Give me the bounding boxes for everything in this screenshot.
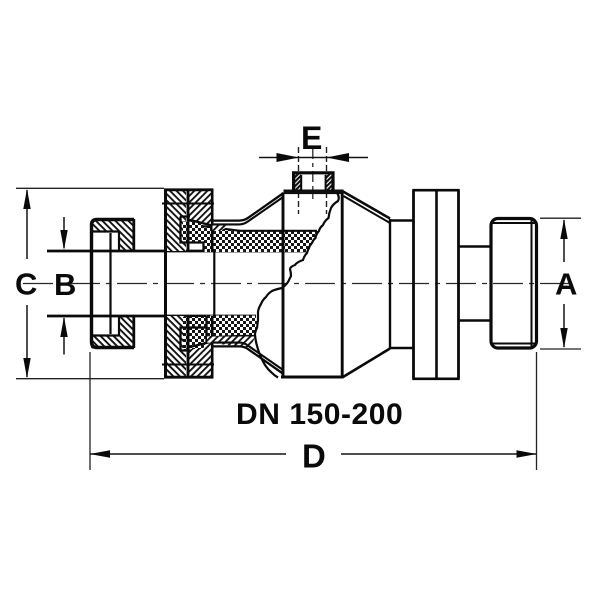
dimension D line and arrows xyxy=(90,453,536,455)
seat liner checker band top xyxy=(204,226,319,252)
bonnet top wall double line xyxy=(213,193,284,224)
svg-text:C: C xyxy=(15,267,37,302)
connector cylinder to cap xyxy=(459,247,491,321)
gasket pocket checker top xyxy=(183,222,204,243)
union nut outline xyxy=(91,219,134,348)
dimension C line and arrows xyxy=(26,190,28,377)
cone to right neck top double line xyxy=(343,192,390,378)
neck cylinder xyxy=(389,219,414,349)
svg-text:DN 150-200: DN 150-200 xyxy=(236,398,403,431)
bonnet bottom wall double line xyxy=(213,343,284,374)
boss pedestal band xyxy=(284,190,344,195)
section break wavy line xyxy=(255,193,339,378)
dimension B line and arrows xyxy=(63,217,65,355)
svg-text:A: A xyxy=(555,267,577,302)
dimension A line and arrows xyxy=(563,220,565,347)
union nut hatch fill xyxy=(91,219,134,349)
E extension line left dashed xyxy=(298,147,300,214)
boss outline xyxy=(294,173,333,192)
boss walls hatch xyxy=(294,173,334,190)
left flange body-side bar hatch xyxy=(188,190,212,377)
svg-text:B: B xyxy=(54,267,76,302)
bonnet wedge hatch bottom xyxy=(207,337,255,349)
pipe outer top line / B top extension xyxy=(47,250,307,253)
dimension D extension lines xyxy=(90,352,537,470)
seat liner checker band bottom xyxy=(207,316,258,337)
dimension C extension lines xyxy=(16,188,164,378)
pipe outer bottom line / B bottom extension xyxy=(47,315,256,318)
dimension A extension lines xyxy=(540,218,581,349)
svg-text:D: D xyxy=(302,438,326,475)
right cap xyxy=(491,219,537,349)
centerline boss vertical xyxy=(312,148,314,199)
bonnet wedge hatch top xyxy=(213,225,232,231)
gasket pocket checker bottom xyxy=(183,317,207,349)
centerline main horizontal xyxy=(23,283,576,285)
E extension line right dashed xyxy=(326,147,328,214)
dimension E line and arrows xyxy=(259,157,368,159)
svg-text:E: E xyxy=(301,120,322,156)
body box xyxy=(281,193,344,378)
right flange pair xyxy=(413,190,460,380)
left flange pipe-side bar hatch xyxy=(167,190,186,377)
left flange outline xyxy=(162,189,317,378)
